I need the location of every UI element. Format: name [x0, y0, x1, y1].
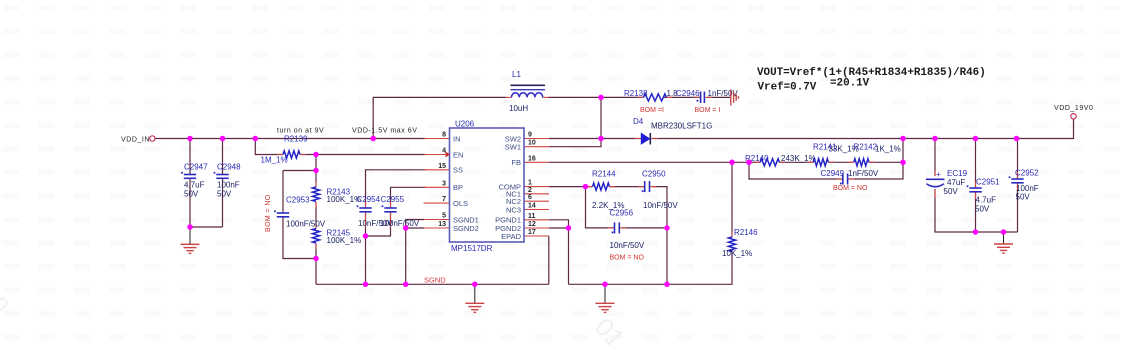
svg-text:7: 7	[442, 196, 446, 203]
wire C2948 branch	[222, 139, 224, 175]
capacitor C2946	[695, 92, 721, 115]
svg-text:C2954: C2954	[357, 195, 381, 204]
wire junction to diode	[601, 138, 641, 140]
svg-text:10: 10	[528, 140, 536, 147]
svg-text:C2955: C2955	[381, 195, 405, 204]
svg-text:17: 17	[528, 229, 536, 236]
wire C2953 bottom lead	[283, 217, 316, 259]
capacitor C2948	[214, 163, 242, 199]
pin stubs (red)	[278, 97, 1018, 255]
svg-text:2: 2	[528, 187, 532, 194]
resistor R2145	[312, 229, 361, 246]
svg-text:11: 11	[528, 213, 536, 220]
svg-text:9: 9	[528, 132, 532, 139]
svg-text:4.7uF: 4.7uF	[976, 196, 997, 205]
svg-text:C2946: C2946	[676, 89, 700, 98]
svg-text:13: 13	[438, 221, 446, 228]
svg-text:turn on at 9V: turn on at 9V	[277, 128, 324, 135]
wire snubber R2138	[601, 96, 644, 98]
wire C2955 bottom to C2954	[366, 212, 391, 236]
svg-text:100nF: 100nF	[217, 181, 240, 190]
svg-text:100nF/50V: 100nF/50V	[286, 220, 326, 229]
U206 left pin numbers	[438, 132, 446, 229]
svg-text:FB: FB	[511, 158, 521, 167]
svg-text:NC3: NC3	[506, 205, 521, 214]
resistor R2141	[813, 143, 859, 166]
wire FB net	[549, 161, 732, 163]
svg-text:3: 3	[442, 180, 446, 187]
svg-text:1K_1%: 1K_1%	[875, 145, 901, 154]
svg-text:100nF/50V: 100nF/50V	[380, 219, 420, 228]
capacitor C2956	[610, 209, 645, 262]
IC U206 MP1517DR	[450, 120, 525, 254]
svg-text:BP: BP	[453, 183, 463, 192]
svg-text:VOUT=Vref*(1+(R45+R1834+R1835): VOUT=Vref*(1+(R45+R1834+R1835)/R46)	[757, 67, 986, 79]
svg-text:C2951: C2951	[976, 178, 1000, 187]
svg-text:BOM =I: BOM =I	[640, 107, 664, 114]
svg-text:D4: D4	[633, 117, 644, 126]
svg-text:IN: IN	[453, 134, 461, 143]
svg-text:U206: U206	[455, 120, 475, 129]
svg-text:C2947: C2947	[184, 163, 208, 172]
inductor L1	[509, 70, 545, 113]
ground (PGND rail)	[596, 284, 615, 312]
svg-text:C2950: C2950	[642, 170, 666, 179]
wire C2954 bottom	[365, 212, 367, 284]
svg-text:4.7uF: 4.7uF	[184, 181, 205, 190]
wire SGND1 SGND2 to rail	[406, 220, 424, 285]
svg-text:BOM = I: BOM = I	[695, 107, 721, 114]
svg-text:47uF: 47uF	[947, 178, 965, 187]
resistor R2140	[745, 154, 816, 166]
wire EC19 branch	[934, 139, 936, 177]
svg-text:R2142: R2142	[854, 143, 878, 152]
wire L1 input from rail	[373, 97, 506, 138]
svg-text:1nF/50V: 1nF/50V	[848, 169, 879, 178]
svg-text:EN: EN	[453, 150, 463, 159]
wire SW1 up to junction	[549, 139, 601, 147]
diode D4	[633, 117, 712, 145]
capacitor C2950	[642, 170, 679, 211]
svg-text:VDD-1.5V max 6V: VDD-1.5V max 6V	[352, 128, 417, 135]
capacitor C2954	[357, 195, 394, 228]
svg-text:C2952: C2952	[1015, 169, 1039, 178]
svg-text:VDD_19V0: VDD_19V0	[1054, 105, 1093, 112]
wire SW2 to junction	[549, 138, 601, 140]
svg-text:SS: SS	[453, 166, 463, 175]
wire EN divider drop	[283, 155, 316, 171]
svg-text:8: 8	[442, 132, 446, 139]
svg-text:SGND: SGND	[424, 276, 446, 285]
wire C2947 branch	[189, 139, 191, 175]
svg-text:BOM = NO: BOM = NO	[610, 255, 645, 262]
capacitor C2953	[274, 196, 326, 229]
svg-text:10uH: 10uH	[509, 104, 528, 113]
wire EPAD	[548, 236, 550, 284]
port VDD_19V0	[1054, 105, 1093, 119]
svg-text:10nF/50V: 10nF/50V	[643, 201, 678, 210]
svg-text:EPAD: EPAD	[501, 232, 521, 241]
wire SGND rail left	[316, 283, 549, 285]
svg-text:Vref=0.7V: Vref=0.7V	[758, 82, 817, 94]
svg-text:BOM = NO: BOM = NO	[833, 185, 868, 192]
svg-text:10nF/50V: 10nF/50V	[610, 241, 645, 250]
svg-text:BOM = NO: BOM = NO	[265, 194, 272, 232]
resistor R2138	[624, 89, 738, 114]
wire C2953 top lead	[282, 171, 284, 213]
svg-text:50V: 50V	[1016, 193, 1031, 202]
U206 right pin numbers	[528, 132, 536, 237]
svg-text:14: 14	[528, 203, 536, 210]
svg-text:OLS: OLS	[453, 199, 468, 208]
wire COMP net	[549, 186, 593, 188]
wire BP to C2955	[391, 187, 427, 207]
svg-text:+: +	[936, 170, 941, 179]
wire C2952 branch	[1017, 139, 1019, 179]
svg-text:SGND2: SGND2	[453, 224, 479, 233]
svg-text:R2138: R2138	[624, 89, 648, 98]
svg-text:5: 5	[442, 213, 446, 220]
svg-text:SW1: SW1	[505, 143, 521, 152]
wire R2146	[731, 162, 733, 237]
svg-text:R2139: R2139	[284, 135, 308, 144]
svg-text:4: 4	[442, 148, 446, 155]
U206 right pin names	[495, 134, 521, 241]
wire R2143 R2145 chain	[315, 171, 317, 188]
svg-text:C2948: C2948	[217, 163, 241, 172]
formula VOUT	[757, 67, 986, 94]
resistor R2146	[722, 228, 758, 258]
wire C2956 row	[586, 187, 614, 228]
svg-text:243K_1%: 243K_1%	[781, 154, 816, 163]
ground (SGND rail left)	[465, 284, 484, 312]
svg-text:10K_1%: 10K_1%	[722, 249, 752, 258]
wire EN drop	[255, 139, 283, 155]
svg-text:MBR230LSFT1G: MBR230LSFT1G	[651, 122, 712, 131]
svg-text:50V: 50V	[975, 205, 990, 214]
svg-text:1: 1	[528, 180, 532, 187]
svg-text:VDD_IN: VDD_IN	[121, 136, 150, 143]
svg-text:6: 6	[528, 194, 532, 201]
resistor R2139	[261, 135, 309, 165]
U206 EN pin red arrow	[446, 152, 451, 158]
wire R2140 R2141 R2142 chain	[749, 161, 760, 163]
resistor R2144	[592, 170, 624, 211]
svg-text:12: 12	[528, 221, 536, 228]
svg-text:100K_1%: 100K_1%	[327, 236, 362, 245]
U206 left pin names	[453, 134, 479, 233]
capacitor C2951	[967, 178, 1001, 214]
wire PGND1 PGND2	[549, 220, 569, 284]
svg-text:MP1517DR: MP1517DR	[451, 244, 493, 253]
capacitor C2949	[821, 169, 879, 192]
capacitor C2955	[380, 195, 420, 228]
resistor R2142	[854, 143, 901, 166]
svg-text:50V: 50V	[944, 187, 959, 196]
wire L1 to SW junction	[548, 97, 601, 138]
wire VDD_IN rail	[156, 138, 427, 140]
svg-text:C2949: C2949	[821, 169, 845, 178]
capacitor EC19 (electrolytic)	[926, 169, 968, 196]
wire C2951 branch	[975, 139, 977, 188]
svg-text:C2956: C2956	[610, 209, 634, 218]
ground (below C2947/C2948)	[181, 227, 200, 253]
ground (output rail)	[994, 232, 1013, 253]
ground (snubber, rotated)	[731, 89, 739, 105]
wire R2139 to EN pin	[300, 154, 426, 156]
svg-text:15: 15	[438, 163, 446, 170]
svg-text:16: 16	[528, 155, 536, 162]
capacitor C2952	[1009, 169, 1040, 202]
svg-text:R2144: R2144	[592, 170, 616, 179]
svg-text:=20.1V: =20.1V	[830, 77, 870, 89]
wire C2949 bypass	[749, 162, 842, 179]
svg-text:50V: 50V	[217, 190, 232, 199]
port VDD_IN	[121, 136, 155, 144]
watermark diagonal text	[0, 292, 631, 345]
wire SS to C2954	[366, 170, 427, 208]
resistor R2143	[312, 187, 361, 204]
svg-text:50V: 50V	[184, 190, 199, 199]
svg-text:R2146: R2146	[734, 228, 758, 237]
svg-text:L1: L1	[512, 70, 521, 79]
svg-text:EC19: EC19	[947, 169, 968, 178]
svg-text:1M_1%: 1M_1%	[261, 156, 288, 165]
wire diode to VDD_19V0 rail	[652, 119, 1074, 139]
capacitor C2947	[181, 163, 208, 199]
svg-text:C2953: C2953	[286, 196, 310, 205]
